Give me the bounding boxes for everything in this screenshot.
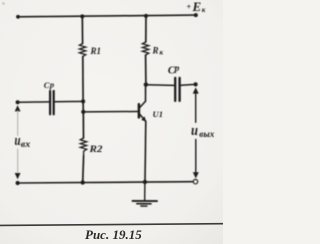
svg-text:U1: U1 bbox=[153, 109, 164, 119]
label +Ek bbox=[187, 0, 206, 14]
wire base bbox=[83, 111, 138, 113]
label uin bbox=[15, 133, 31, 149]
wire cap to junction A bbox=[55, 100, 83, 102]
wire uin upper faint segment bbox=[17, 111, 19, 136]
label Cp output bbox=[168, 64, 180, 77]
label R1 bbox=[90, 46, 101, 56]
svg-text:Рис. 19.15: Рис. 19.15 bbox=[85, 227, 142, 242]
node input/base junction A bbox=[81, 99, 85, 103]
wire junction A to junction B bbox=[82, 101, 84, 112]
node top-left blob bbox=[16, 15, 20, 19]
svg-text:+: + bbox=[187, 3, 192, 12]
arrow down to output circle bbox=[193, 172, 199, 178]
node +Ek terminal bbox=[194, 13, 198, 17]
arrow up at input terminal bbox=[15, 105, 21, 111]
capacitor Cp output bbox=[174, 78, 176, 101]
svg-text:к: к bbox=[202, 6, 206, 14]
node input top terminal bbox=[16, 100, 20, 104]
node output terminal bbox=[194, 82, 198, 86]
wire top rail bbox=[18, 15, 196, 17]
svg-text:u: u bbox=[15, 133, 21, 149]
node input bottom terminal bbox=[16, 181, 20, 185]
arrow down at input bottom bbox=[15, 173, 21, 179]
node emitter bottom junction bbox=[143, 180, 147, 184]
svg-text:R: R bbox=[152, 46, 159, 56]
resistor R2 bbox=[80, 138, 86, 156]
wire collector node to output cap bbox=[146, 84, 174, 87]
capacitor Cp input bbox=[49, 91, 51, 114]
svg-text:р: р bbox=[174, 64, 180, 74]
resistor R1 bbox=[79, 44, 85, 57]
ground bbox=[133, 182, 158, 206]
label U1 bbox=[153, 109, 164, 119]
label R2 bbox=[88, 144, 103, 154]
resistor Rk bbox=[142, 42, 148, 55]
wire R1 branch upper bbox=[81, 16, 83, 43]
node top of Rk branch bbox=[144, 14, 148, 18]
arrow up at output terminal bbox=[193, 87, 199, 93]
node output bottom open circle bbox=[193, 180, 197, 184]
svg-text:вх: вх bbox=[21, 139, 31, 149]
node collector junction bbox=[144, 82, 148, 86]
svg-text:u: u bbox=[191, 123, 198, 139]
svg-text:С: С bbox=[44, 80, 50, 90]
wire R2 branch upper bbox=[82, 112, 84, 138]
wire uout upper segment bbox=[195, 93, 197, 123]
wire Rk branch upper bbox=[145, 16, 147, 42]
node base wire junction B bbox=[81, 110, 85, 114]
svg-text:R2: R2 bbox=[88, 144, 103, 154]
label Cp input bbox=[44, 79, 54, 89]
svg-text:R1: R1 bbox=[90, 46, 101, 56]
svg-text:Е: Е bbox=[192, 0, 202, 14]
wire bottom rail bbox=[18, 182, 194, 183]
svg-text:р: р bbox=[49, 79, 54, 89]
wire uout lower segment bbox=[195, 140, 197, 174]
wire input to cap bbox=[18, 101, 49, 103]
node R2 bottom junction bbox=[81, 180, 85, 184]
wire R1 to base node bbox=[82, 57, 84, 102]
wire uin lower faint segment bbox=[17, 149, 19, 174]
label uout bbox=[191, 123, 215, 139]
speck top-left bbox=[2, 2, 5, 5]
svg-text:к: к bbox=[160, 49, 164, 57]
caption rule bbox=[0, 224, 223, 226]
svg-text:вых: вых bbox=[199, 129, 215, 139]
node top of R1 branch bbox=[80, 14, 84, 18]
label Rk bbox=[152, 46, 164, 57]
wire output cap to output terminal bbox=[181, 84, 193, 87]
wire R2 to bottom rail bbox=[82, 156, 85, 183]
wire Rk to collector node bbox=[145, 55, 147, 85]
transistor U1 bbox=[139, 85, 146, 182]
